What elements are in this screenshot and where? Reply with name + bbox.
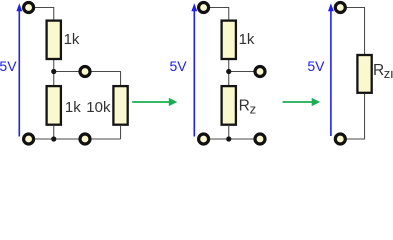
- wire: [53, 60, 55, 85]
- wire: [204, 8, 229, 21]
- wire: [54, 72, 121, 86]
- terminal: [255, 134, 265, 144]
- svg-text:1k: 1k: [239, 31, 255, 48]
- svg-text:R: R: [373, 62, 384, 79]
- wire: [29, 8, 54, 21]
- junction: [226, 69, 231, 74]
- wire: [228, 60, 230, 85]
- wire: [340, 8, 364, 55]
- svg-text:1k: 1k: [65, 99, 81, 116]
- resistor R5 Rz: [222, 86, 236, 125]
- arrow transform 1: [132, 98, 177, 106]
- terminal: [199, 134, 209, 144]
- resistor R1 1k top left: [47, 21, 61, 59]
- terminal: [24, 3, 34, 13]
- wire: [204, 138, 260, 140]
- resistor R6 Rz': [357, 55, 371, 93]
- resistor R3 10k: [113, 86, 127, 125]
- junction: [51, 69, 56, 74]
- terminal: [255, 67, 265, 77]
- svg-text:R: R: [239, 97, 250, 114]
- svg-text:z: z: [384, 66, 391, 81]
- voltage source 5V indicator right: [307, 3, 333, 136]
- voltage source 5V indicator middle: [170, 3, 198, 136]
- resistor R2 1k bottom left: [47, 86, 61, 125]
- svg-text:10k: 10k: [86, 99, 111, 116]
- svg-text:5V: 5V: [170, 58, 188, 74]
- voltage source 5V indicator left: [0, 3, 22, 136]
- wire: [120, 126, 122, 139]
- terminal: [199, 3, 209, 13]
- junction: [51, 136, 56, 141]
- wire: [53, 126, 55, 139]
- arrow transform 2: [283, 98, 321, 106]
- svg-text:z: z: [250, 102, 257, 117]
- junction: [226, 136, 231, 141]
- terminal: [335, 134, 345, 144]
- wire: [229, 71, 260, 73]
- terminal: [24, 134, 34, 144]
- resistor R4 1k middle panel: [222, 21, 236, 59]
- svg-text:5V: 5V: [307, 58, 325, 74]
- terminal: [80, 134, 90, 144]
- terminal: [335, 3, 345, 13]
- wire: [29, 138, 121, 140]
- wire: [228, 126, 230, 139]
- wire: [340, 94, 364, 139]
- svg-text:5V: 5V: [0, 58, 17, 74]
- terminal: [80, 67, 90, 77]
- svg-text:1k: 1k: [64, 31, 80, 48]
